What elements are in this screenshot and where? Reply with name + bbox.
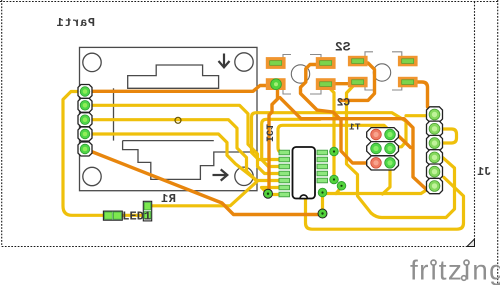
sheet top edge xyxy=(0,1,499,3)
wire S2b pad TL to T1 pad1L xyxy=(341,63,375,100)
wire Part1 pad5 diagonal to via V6 xyxy=(85,149,318,215)
wire Part1 pad1 to S2a pad BL (top copper) xyxy=(85,86,267,92)
svg-text:T1: T1 xyxy=(349,121,361,132)
label R1 (mirrored) xyxy=(161,192,176,206)
fritzing logo xyxy=(410,255,500,285)
wire IC notch pin to header J pad5 (outer loop) xyxy=(306,178,464,230)
wire pad4 to IC pad5L xyxy=(85,134,258,206)
Part1 mounting hole bottom-right xyxy=(235,167,253,185)
wire pad2 to IC pad4L xyxy=(85,105,282,173)
wire via V5 to via V6 xyxy=(321,193,324,214)
resistor R1 component xyxy=(143,201,151,221)
LED1 component xyxy=(103,211,122,220)
wire IC pad3L up-left short bus xyxy=(262,119,320,166)
IC U1 right pads xyxy=(317,150,328,183)
sheet right edge xyxy=(474,2,476,240)
switch S2a bracket outline xyxy=(283,55,321,95)
wire S2b pad BR to header J pad1 xyxy=(412,82,435,114)
label S2 (mirrored) xyxy=(335,40,351,55)
wire S2a pad BL diagonal to orange bus xyxy=(280,98,428,191)
Part1 inner outline vertical xyxy=(113,88,115,140)
switch S2a centre circle xyxy=(291,65,309,83)
sheet bottom edge xyxy=(2,246,467,248)
svg-text:LED1: LED1 xyxy=(122,209,151,223)
svg-text:C2: C2 xyxy=(337,98,350,110)
label C2 (mirrored) xyxy=(337,98,350,110)
wire via V5 to header J pad6 xyxy=(323,189,429,194)
wire S2a pad TR to orange bus to T1 and J pad6 xyxy=(301,65,371,164)
wire S2a pad BR to S2b pad BL link xyxy=(330,82,353,85)
wire T1 pad3R down to bus xyxy=(383,166,391,194)
wire IC pad1L to T1 pad2R xyxy=(278,125,390,152)
via V5 xyxy=(318,188,327,197)
via V6 xyxy=(318,209,327,218)
svg-text:J1: J1 xyxy=(477,166,491,179)
wire bus branch to header J pad1 xyxy=(406,114,429,117)
wire pad1 net to LED1 (bottom copper) xyxy=(63,92,106,216)
svg-text:IC1: IC1 xyxy=(263,124,274,142)
Part1 mounting hole bottom-left xyxy=(83,167,101,185)
label J1 (mirrored, outside sheet) xyxy=(477,166,491,179)
label IC1 (mirrored, vertical) xyxy=(263,124,274,142)
svg-text:Part1: Part1 xyxy=(56,16,95,30)
connector Part1 body outline xyxy=(80,47,258,190)
wire LED1 to R1 link xyxy=(120,214,145,217)
IC U1 left pads xyxy=(279,150,290,197)
transistor T1 pad grid xyxy=(367,128,399,170)
switch S2a pads xyxy=(266,57,336,90)
folded page corner xyxy=(467,239,475,247)
switch S2b bracket outline xyxy=(365,52,402,90)
wire S2a pad BR to via V3 xyxy=(327,86,334,180)
label T1 (mirrored) xyxy=(349,121,361,132)
switch S2b centre circle xyxy=(373,64,390,81)
Part1 mounting hole top-left xyxy=(83,53,101,71)
Part1 bottom stepped outline xyxy=(123,141,257,180)
via V1 xyxy=(264,189,273,198)
via on S2a pad BL xyxy=(271,79,282,90)
wire via V1 to IC pad6L xyxy=(262,188,283,194)
IC U1 body xyxy=(293,147,316,199)
wire via V1 to IC pad7L xyxy=(268,192,282,196)
outer right edge xyxy=(497,0,499,285)
via V3 xyxy=(330,175,339,184)
Part1 pin pads column xyxy=(78,85,92,157)
Part1 top stepped outline xyxy=(128,65,219,88)
Part1 down-arrow glyph xyxy=(219,54,230,68)
switch S2b pads xyxy=(348,56,418,88)
Part1 right-arrow glyph xyxy=(213,169,228,180)
wire via V4 stub xyxy=(336,187,342,194)
via V2 xyxy=(330,147,339,156)
wire S2b pad BL to header J pad4 (long serpentine) xyxy=(347,84,455,218)
sheet left edge xyxy=(1,0,3,247)
wire pad3 to R1 top pad xyxy=(85,120,282,181)
header J1 pads column xyxy=(427,107,443,194)
label Part1 (mirrored) xyxy=(56,16,95,30)
svg-text:R1: R1 xyxy=(161,192,176,206)
wire S2a pad BL zigzag down to via V1 xyxy=(269,87,278,192)
svg-text:S2: S2 xyxy=(335,40,351,55)
wire header J pad2-pad3 loop xyxy=(440,129,457,143)
via V4 xyxy=(337,182,346,191)
wire stub to T1 pad1R xyxy=(398,135,411,148)
svg-text:frıtzıng: frıtzıng xyxy=(410,255,500,285)
Part1 mounting hole top-right xyxy=(235,53,253,71)
wire IC pad2L up-left to bus then header J pad1 xyxy=(252,113,407,160)
unconnected hole xyxy=(175,117,181,123)
